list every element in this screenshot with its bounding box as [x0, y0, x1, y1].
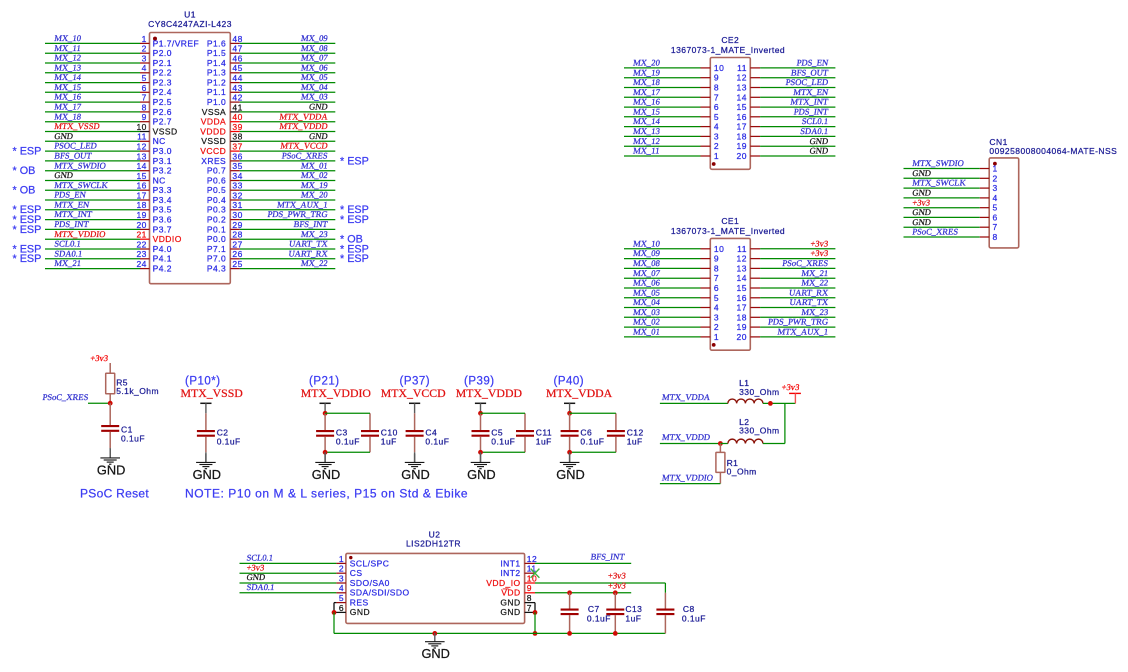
svg-text:330_Ohm: 330_Ohm: [739, 387, 779, 397]
svg-text:GND: GND: [308, 102, 328, 112]
ground symbol below C2: [193, 454, 221, 482]
svg-text:MX_17: MX_17: [633, 87, 662, 97]
svg-text:19: 19: [737, 322, 747, 332]
CE1 pin 19: wire, net label PDS_PWR_TRG: [737, 317, 836, 332]
svg-text:+3v3: +3v3: [607, 580, 626, 590]
svg-text:+3v3: +3v3: [246, 562, 265, 572]
U1 pin 25 P4.3: wire, net label MX_22: [207, 258, 335, 273]
U1 pin 23 P4.1: wire, net label SDA0.1: [13, 248, 172, 265]
ground rail wire under U2: [334, 632, 665, 634]
capacitor C3 0.1uF: [316, 413, 360, 452]
svg-text:MTX_VDDD: MTX_VDDD: [279, 121, 329, 131]
CE2 pin 13: wire, net label PSOC_LED: [737, 77, 836, 92]
svg-text:U1: U1: [184, 10, 196, 20]
svg-text:MX_13: MX_13: [633, 126, 661, 136]
svg-text:MTX_EN: MTX_EN: [793, 87, 830, 97]
svg-text:* ESP: * ESP: [340, 253, 369, 265]
svg-text:MX_22: MX_22: [801, 278, 829, 288]
svg-text:MX_06: MX_06: [300, 62, 329, 72]
capacitor C10 1uF: [361, 413, 398, 452]
capacitor C7 0.1uF: [561, 593, 611, 634]
U1 pin 31 P0.3: wire, net label MTX_AUX_1: [207, 199, 369, 216]
svg-text:P7.1: P7.1: [207, 244, 226, 254]
svg-text:P0.4: P0.4: [207, 195, 226, 205]
ground symbol below C5: [467, 454, 495, 482]
CE2 pin 1: wire, net label MX_11: [624, 146, 719, 161]
CE1 pin 14: wire, net label MX_21: [737, 268, 836, 283]
svg-text:P2.0: P2.0: [153, 48, 172, 58]
svg-text:MX_07: MX_07: [633, 268, 662, 278]
capacitor C4 0.1uF: [406, 413, 450, 452]
svg-text:8: 8: [714, 263, 719, 273]
svg-text:P7.0: P7.0: [207, 254, 226, 264]
connector CE2 1367073-1_MATE_Inverted body: [710, 58, 750, 170]
capacitor C6 0.1uF: [561, 413, 605, 452]
CE1 pin 4: wire, net label MX_04: [624, 297, 719, 312]
svg-text:15: 15: [737, 283, 747, 293]
wire C4 to ground: [414, 452, 416, 462]
svg-text:13: 13: [737, 263, 747, 273]
svg-text:* OB: * OB: [13, 165, 36, 177]
U1 pin 44 P1.2: wire, net label MX_05: [207, 72, 335, 87]
svg-text:12: 12: [737, 73, 747, 83]
svg-text:7: 7: [993, 222, 998, 232]
svg-text:MTX_VDDIO: MTX_VDDIO: [54, 229, 106, 239]
svg-text:3: 3: [339, 573, 344, 583]
svg-text:SDA0.1: SDA0.1: [246, 582, 275, 592]
svg-text:1: 1: [339, 554, 344, 564]
U1 pin 43 P1.1: wire, net label MX_04: [207, 82, 335, 97]
U1 pin 15 NC: wire, net label GND: [45, 170, 166, 185]
svg-text:P1.1: P1.1: [207, 87, 226, 97]
svg-text:VDDA: VDDA: [201, 117, 226, 127]
svg-text:MX_21: MX_21: [54, 258, 82, 268]
svg-text:MX_06: MX_06: [633, 278, 662, 288]
svg-text:MX_17: MX_17: [54, 102, 83, 112]
svg-text:PSOC_LED: PSOC_LED: [54, 141, 98, 151]
svg-text:MTX_AUX_1: MTX_AUX_1: [276, 199, 328, 209]
svg-text:MTX_SWDIO: MTX_SWDIO: [912, 158, 965, 168]
svg-text:2: 2: [142, 44, 147, 54]
svg-text:P2.7: P2.7: [153, 117, 172, 127]
svg-text:29: 29: [232, 220, 242, 230]
svg-text:MX_20: MX_20: [300, 190, 328, 200]
U2 pin 6 GND: [334, 603, 370, 617]
CN1 pin 6: wire, net label GND: [904, 207, 998, 222]
svg-text:MTX_VDDA: MTX_VDDA: [661, 392, 711, 402]
U2 pin 1 SCL/SPC: wire, net label SCL0.1: [240, 553, 390, 569]
junction node bottom of C6: [567, 450, 572, 455]
svg-text:MX_14: MX_14: [54, 72, 83, 82]
svg-text:BFS_OUT: BFS_OUT: [54, 151, 93, 161]
CN1 pin 5: wire, net label +3v3: [904, 197, 998, 212]
svg-text:* OB: * OB: [13, 185, 36, 197]
svg-text:P0.6: P0.6: [207, 175, 226, 185]
svg-text:GND: GND: [312, 467, 340, 482]
svg-text:4: 4: [714, 122, 719, 132]
svg-text:GND: GND: [54, 170, 74, 180]
wire parallel cap bottom: [325, 451, 370, 453]
svg-text:* ESP: * ESP: [340, 155, 369, 167]
svg-text:18: 18: [737, 131, 747, 141]
CE1 pin 20: wire, net label MTX_AUX_1: [737, 327, 836, 342]
U1 pin 21 VDDIO: wire, net label MTX_VDDIO: [45, 229, 182, 244]
CE2 pin 9: wire, net label MX_19: [624, 67, 719, 82]
svg-text:INT1: INT1: [500, 558, 520, 568]
svg-text:GND: GND: [912, 207, 932, 217]
wire parallel cap top: [570, 412, 616, 414]
svg-text:0.1uF: 0.1uF: [121, 433, 145, 443]
svg-text:0_Ohm: 0_Ohm: [727, 466, 757, 476]
svg-text:P3.7: P3.7: [153, 224, 172, 234]
U1 pin 11 NC: wire, net label GND: [45, 131, 166, 146]
CE2 pin 4: wire, net label MX_14: [624, 116, 719, 131]
svg-text:PDS_PWR_TRG: PDS_PWR_TRG: [767, 317, 828, 327]
U2 pin 2 CS: wire, net label +3v3: [240, 562, 363, 578]
svg-text:P4.0: P4.0: [153, 244, 172, 254]
wire C6 to ground: [569, 452, 571, 462]
svg-text:PSoC_XRES: PSoC_XRES: [42, 392, 89, 402]
svg-text:P2.3: P2.3: [153, 78, 172, 88]
svg-text:15: 15: [737, 102, 747, 112]
wire L1 node down to L2 output: [784, 403, 786, 443]
svg-text:MX_04: MX_04: [633, 297, 662, 307]
wire MTX_VDDIO to R1: [660, 472, 721, 483]
U1 pin 26 P7.0: wire, net label UART_RX: [207, 248, 369, 265]
svg-text:MX_10: MX_10: [54, 33, 82, 43]
U1 pin 3 P2.1: wire, net label MX_12: [45, 53, 172, 68]
svg-text:* ESP: * ESP: [13, 224, 42, 236]
ground symbol below U2: [421, 633, 449, 661]
svg-text:P0.7: P0.7: [207, 166, 226, 176]
U2 pin 7 GND: [500, 603, 535, 617]
svg-text:SDO/SA0: SDO/SA0: [350, 578, 390, 588]
svg-text:20: 20: [737, 332, 747, 342]
svg-text:14: 14: [136, 161, 146, 171]
svg-text:GND: GND: [246, 572, 266, 582]
svg-text:8: 8: [142, 102, 147, 112]
svg-text:P3.2: P3.2: [153, 166, 172, 176]
U1 pin 1 marker dot: [153, 37, 157, 41]
CN1 pin 2: wire, net label GND: [904, 168, 998, 183]
CE1 pin 9: wire, net label MX_09: [624, 248, 719, 263]
svg-text:P2.2: P2.2: [153, 68, 172, 78]
svg-text:7: 7: [714, 92, 719, 102]
svg-text:CE2: CE2: [721, 35, 739, 45]
junction node MTX_VDDD / R1: [718, 441, 723, 446]
svg-text:PSoC_XRES: PSoC_XRES: [281, 151, 328, 161]
svg-text:4: 4: [714, 303, 719, 313]
svg-text:MTX_VDDIO: MTX_VDDIO: [661, 472, 713, 482]
svg-text:45: 45: [232, 63, 242, 73]
svg-text:13: 13: [737, 83, 747, 93]
svg-text:MTX_AUX_1: MTX_AUX_1: [777, 327, 829, 337]
svg-text:MX_18: MX_18: [54, 111, 82, 121]
svg-text:MTX_VDDA: MTX_VDDA: [279, 111, 329, 121]
svg-text:VDD_IO: VDD_IO: [486, 578, 520, 588]
U1 pin 30 P0.2: wire, net label PDS_PWR_TRG: [207, 209, 369, 226]
svg-text:27: 27: [232, 239, 242, 249]
resistor R1 0_Ohm: [716, 444, 757, 484]
svg-text:SDA/SDI/SDO: SDA/SDI/SDO: [350, 588, 410, 598]
ground symbol below C1: [97, 449, 125, 477]
CN1 pin 1: wire, net label MTX_SWDIO: [904, 158, 998, 173]
svg-text:MX_18: MX_18: [633, 77, 661, 87]
U1 pin 13 P3.1: wire, net label BFS_OUT: [45, 151, 172, 166]
svg-text:1: 1: [714, 151, 719, 161]
svg-text:9: 9: [714, 254, 719, 264]
CE2 pin 1 marker dot: [712, 162, 716, 166]
svg-text:25: 25: [232, 259, 242, 269]
wire C3 to ground: [324, 452, 326, 462]
power symbol MTX_VDDA: [546, 386, 613, 403]
svg-text:+3v3: +3v3: [912, 197, 931, 207]
svg-text:GND: GND: [350, 607, 370, 617]
power symbol +3v3 (R5 branch): [90, 353, 111, 373]
svg-text:GND: GND: [54, 131, 74, 141]
wire MTX_VDDD to L2: [660, 432, 721, 443]
wire parallel cap top: [325, 412, 370, 414]
svg-text:* ESP: * ESP: [340, 214, 369, 226]
junction node top of C5: [478, 411, 483, 416]
U1 pin 1 P1.7/VREF: wire, net label MX_10: [45, 33, 199, 48]
svg-text:11: 11: [527, 564, 537, 574]
wire C2 to ground: [205, 452, 207, 462]
U1 pin 19 P3.6: wire, net label MTX_INT: [13, 209, 172, 226]
svg-text:PDS_INT: PDS_INT: [793, 106, 829, 116]
svg-text:28: 28: [232, 230, 242, 240]
wire U2 RES to GND pin: [334, 603, 336, 613]
svg-text:CY8C4247AZI-L423: CY8C4247AZI-L423: [148, 19, 232, 29]
svg-text:BFS_OUT: BFS_OUT: [790, 67, 829, 77]
U1 pin 6 P2.4: wire, net label MX_15: [45, 82, 172, 97]
svg-text:0.1uF: 0.1uF: [491, 436, 515, 446]
svg-text:5: 5: [714, 293, 719, 303]
svg-text:0.1uF: 0.1uF: [580, 436, 604, 446]
svg-text:10: 10: [714, 63, 724, 73]
connector CN1 009258008004064-MATE-NSS body: [989, 158, 1019, 248]
wire parallel cap top: [481, 412, 526, 414]
svg-text:SCL/SPC: SCL/SPC: [350, 558, 390, 568]
svg-text:PDS_EN: PDS_EN: [796, 58, 830, 68]
svg-text:NOTE: P10 on M & L series, P15: NOTE: P10 on M & L series, P15 on Std & …: [185, 486, 468, 500]
svg-text:GND: GND: [809, 146, 829, 156]
CN1 pin 8: wire, net label PSoC_XRES: [904, 227, 998, 242]
svg-text:P2.5: P2.5: [153, 97, 172, 107]
svg-text:5: 5: [142, 73, 147, 83]
U2 pin 5 RES: [336, 593, 368, 608]
CE2 pin 2: wire, net label MX_12: [624, 136, 719, 151]
svg-text:P1.2: P1.2: [207, 78, 226, 88]
CE1 pin 1 marker dot: [712, 343, 716, 347]
junction node C7 bottom: [567, 631, 572, 636]
svg-text:40: 40: [232, 112, 242, 122]
svg-text:MX_14: MX_14: [633, 116, 662, 126]
svg-text:BFS_INT: BFS_INT: [590, 552, 626, 562]
svg-text:+3v3: +3v3: [810, 238, 829, 248]
svg-text:1: 1: [714, 332, 719, 342]
svg-text:MX_23: MX_23: [801, 307, 829, 317]
svg-text:0.1uF: 0.1uF: [682, 613, 706, 623]
CE1 pin 11: wire, net label +3v3: [737, 238, 835, 253]
svg-text:6: 6: [142, 83, 147, 93]
svg-text:6: 6: [339, 603, 344, 613]
svg-text:MTX_VDDA: MTX_VDDA: [546, 386, 613, 400]
U1 pin 4 P2.2: wire, net label MX_13: [45, 62, 172, 77]
svg-text:35: 35: [232, 161, 242, 171]
svg-text:MX_15: MX_15: [54, 82, 82, 92]
CE2 pin 14: wire, net label MTX_EN: [737, 87, 836, 102]
U2 pin 11 INT2 with no-connect cross: [500, 564, 539, 579]
svg-text:CS: CS: [350, 568, 363, 578]
svg-text:MX_20: MX_20: [633, 58, 661, 68]
svg-text:PDS_INT: PDS_INT: [54, 219, 90, 229]
U1 pin 40 VDDA: wire, net label MTX_VDDA: [201, 111, 336, 126]
IC U2 LIS2DH12TR body: [346, 553, 525, 623]
U1 pin 18 P3.5: wire, net label MTX_EN: [13, 199, 172, 216]
svg-text:MTX_SWCLK: MTX_SWCLK: [912, 178, 968, 188]
svg-text:26: 26: [232, 249, 242, 259]
U1 pin 24 P4.2: wire, net label MX_21: [45, 258, 172, 273]
svg-text:4: 4: [339, 583, 344, 593]
svg-text:4: 4: [993, 193, 998, 203]
svg-text:3: 3: [714, 312, 719, 322]
svg-text:P0.1: P0.1: [207, 224, 226, 234]
svg-text:* ESP: * ESP: [13, 146, 42, 158]
svg-text:P3.6: P3.6: [153, 215, 172, 225]
junction node C13 top: [613, 590, 618, 595]
svg-text:+3v3: +3v3: [810, 248, 829, 258]
capacitor C12 1uF: [607, 413, 644, 452]
svg-text:5.1k_Ohm: 5.1k_Ohm: [116, 386, 159, 396]
svg-text:10: 10: [527, 573, 537, 583]
junction node top of C6: [567, 411, 572, 416]
capacitor C2 0.1uF: [197, 413, 241, 452]
svg-text:GND: GND: [912, 217, 932, 227]
svg-text:17: 17: [136, 190, 146, 200]
svg-text:MX_04: MX_04: [300, 82, 329, 92]
CE1 pin 13: wire, net label PSoC_XRES: [737, 258, 836, 273]
junction node bottom of C3: [323, 450, 328, 455]
svg-text:11: 11: [737, 63, 747, 73]
svg-text:22: 22: [136, 239, 146, 249]
svg-text:MX_19: MX_19: [633, 67, 661, 77]
junction node bottom of C5: [478, 450, 483, 455]
svg-text:24: 24: [136, 259, 146, 269]
capacitor C1 0.1uF: [101, 403, 145, 458]
svg-text:19: 19: [136, 210, 146, 220]
junction node L1 output: [768, 401, 773, 406]
U1 pin 16 P3.3: wire, net label MTX_SWCLK: [13, 180, 172, 197]
svg-text:MX_12: MX_12: [633, 136, 661, 146]
svg-text:17: 17: [737, 303, 747, 313]
svg-text:7: 7: [714, 273, 719, 283]
svg-text:19: 19: [737, 141, 747, 151]
U1 pin 45 P1.3: wire, net label MX_06: [207, 62, 335, 77]
junction node U2 pins 5/6: [332, 610, 337, 615]
U1 pin 29 P0.1: wire, net label BFS_INT: [207, 219, 335, 234]
svg-text:P1.7/VREF: P1.7/VREF: [153, 38, 200, 48]
wire U2 pin 7 down to ground rail: [534, 612, 536, 633]
CE1 pin 7: wire, net label MX_07: [624, 268, 719, 283]
svg-text:MX_01: MX_01: [633, 327, 661, 337]
svg-text:18: 18: [136, 200, 146, 210]
ground symbol below C6: [556, 454, 584, 482]
svg-text:VSSA: VSSA: [202, 107, 226, 117]
svg-text:P1.6: P1.6: [207, 38, 226, 48]
svg-text:UART_RX: UART_RX: [788, 287, 829, 297]
resistor R5 5.1k_Ohm: [106, 373, 159, 403]
svg-text:GND: GND: [809, 136, 829, 146]
svg-text:14: 14: [737, 273, 747, 283]
U2 pin 9 VDD: wire to +3v3/C7/C13: [501, 580, 631, 597]
svg-text:MX_07: MX_07: [300, 53, 329, 63]
U1 pin 33 P0.5: wire, net label MX_19: [207, 180, 335, 195]
U1 pin 12 P3.0: wire, net label PSOC_LED: [13, 141, 172, 158]
svg-text:16: 16: [737, 112, 747, 122]
svg-text:MX_19: MX_19: [300, 180, 328, 190]
svg-text:MX_12: MX_12: [54, 53, 82, 63]
U1 pin 47 P1.5: wire, net label MX_08: [207, 43, 335, 58]
svg-text:12: 12: [527, 554, 537, 564]
junction node C13 bottom: [613, 631, 618, 636]
inductor L1 330_Ohm: [728, 378, 780, 403]
svg-text:+3v3: +3v3: [607, 570, 626, 580]
CE2 pin 11: wire, net label PDS_EN: [737, 58, 835, 73]
svg-text:009258008004064-MATE-NSS: 009258008004064-MATE-NSS: [989, 146, 1117, 156]
svg-text:GND: GND: [421, 646, 449, 661]
svg-text:0.1uF: 0.1uF: [217, 436, 241, 446]
U2 pin 12 INT1: wire, net label BFS_INT: [500, 552, 631, 569]
CE2 pin 18: wire, net label SDA0.1: [737, 126, 836, 141]
CE2 pin 12: wire, net label BFS_OUT: [737, 67, 836, 82]
svg-text:GND: GND: [308, 131, 328, 141]
svg-text:47: 47: [232, 44, 242, 54]
CE2 pin 10: wire, net label MX_20: [624, 58, 724, 73]
svg-text:8: 8: [993, 232, 998, 242]
svg-text:P2.1: P2.1: [153, 58, 172, 68]
svg-text:6: 6: [714, 283, 719, 293]
svg-text:MX_09: MX_09: [633, 248, 661, 258]
CE2 pin 3: wire, net label MX_13: [624, 126, 719, 141]
U1 pin 8 P2.6: wire, net label MX_17: [45, 102, 172, 117]
svg-text:SCL0.1: SCL0.1: [246, 553, 274, 563]
svg-text:XRES: XRES: [201, 156, 226, 166]
U1 pin 17 P3.4: wire, net label PDS_EN: [45, 190, 172, 205]
junction node ground rail below pin 7: [533, 631, 538, 636]
svg-text:1367073-1_MATE_Inverted: 1367073-1_MATE_Inverted: [671, 45, 785, 55]
svg-text:34: 34: [232, 171, 242, 181]
svg-text:UART_TX: UART_TX: [288, 239, 329, 249]
svg-text:P0.3: P0.3: [207, 205, 226, 215]
svg-text:20: 20: [737, 151, 747, 161]
svg-text:MX_21: MX_21: [801, 268, 829, 278]
svg-text:5: 5: [993, 203, 998, 213]
U1 pin 48 P1.6: wire, net label MX_09: [207, 33, 335, 48]
capacitor C11 1uF: [516, 413, 552, 452]
svg-text:CE1: CE1: [721, 216, 739, 226]
CE1 pin 8: wire, net label MX_08: [624, 258, 719, 273]
U1 pin 22 P4.0: wire, net label SCL0.1: [13, 239, 172, 256]
svg-text:12: 12: [737, 254, 747, 264]
svg-text:PSoC Reset: PSoC Reset: [80, 486, 149, 500]
U1 pin 39 VDDD: wire, net label MTX_VDDD: [200, 121, 335, 136]
svg-text:MX_08: MX_08: [633, 258, 661, 268]
junction node top of C3: [323, 411, 328, 416]
svg-text:4: 4: [142, 63, 147, 73]
svg-text:7: 7: [142, 93, 147, 103]
svg-text:+3v3: +3v3: [90, 353, 109, 363]
